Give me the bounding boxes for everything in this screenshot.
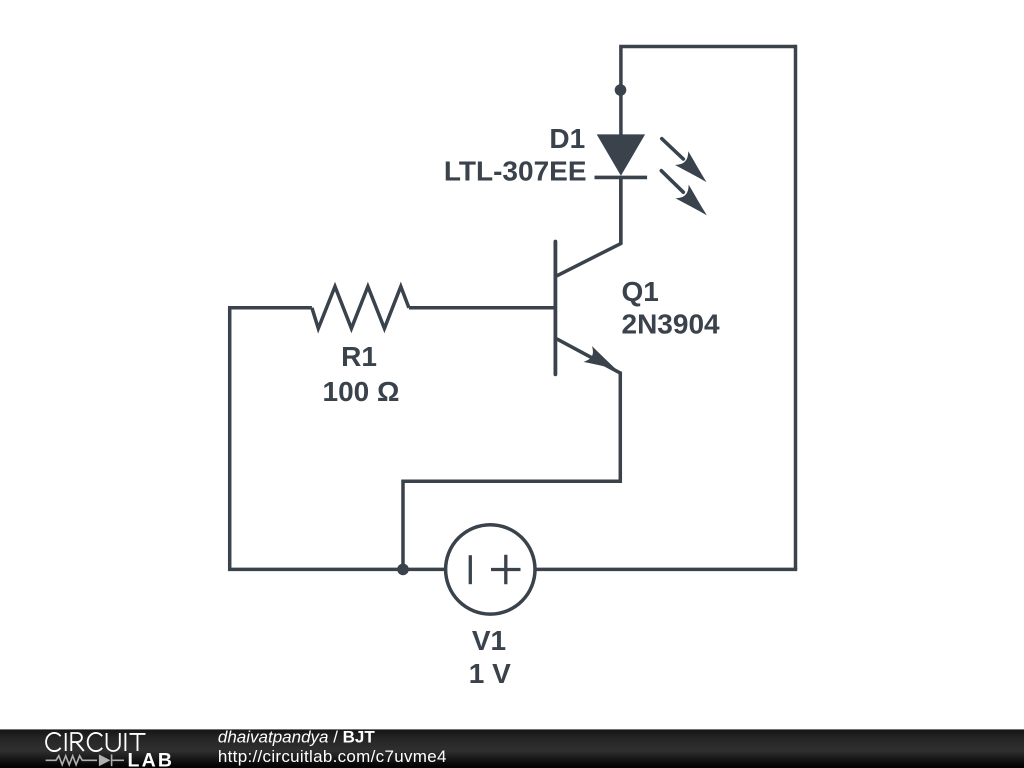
svg-text:Q1: Q1 (622, 276, 659, 307)
emitter arrowhead (583, 346, 620, 377)
node junction dot upper (615, 84, 627, 96)
minus terminal bar (469, 555, 472, 584)
svg-text:D1: D1 (549, 123, 585, 154)
svg-text:dhaivatpandya / BJT: dhaivatpandya / BJT (218, 728, 375, 747)
cathode bar (595, 176, 648, 180)
wire bottom left (230, 308, 446, 570)
base bar (554, 242, 558, 375)
LED D1 (595, 134, 714, 244)
svg-text:LTL-307EE: LTL-307EE (444, 156, 587, 187)
wire R1 left lead (228, 306, 312, 310)
node junction dot lower (397, 564, 409, 576)
svg-text:http://circuitlab.com/c7uvme4: http://circuitlab.com/c7uvme4 (218, 747, 447, 766)
plus sign (491, 555, 521, 584)
wire base (R1 right lead to Q1 base) (409, 306, 554, 310)
light arrow 2 (661, 171, 713, 223)
anode triangle (597, 134, 645, 175)
CircuitLab logo CIRCUIT (46, 733, 145, 751)
svg-text:1 V: 1 V (469, 658, 511, 689)
voltage source V1 (446, 525, 535, 614)
footer bar (0, 729, 1024, 768)
svg-text:R1: R1 (341, 341, 377, 372)
wire top horizontal (621, 47, 796, 135)
resistor R1 (312, 287, 409, 329)
wire right vertical (794, 45, 798, 570)
light arrow 1 (662, 139, 713, 189)
emitter diagonal (557, 339, 621, 373)
collector diagonal (557, 176, 621, 276)
wire bottom right (535, 568, 797, 572)
svg-text:LAB: LAB (128, 750, 175, 768)
CircuitLab logo resistor-diode squiggle (46, 754, 124, 766)
cathode wire (619, 177, 623, 244)
svg-text:V1: V1 (472, 625, 506, 656)
svg-text:2N3904: 2N3904 (622, 308, 721, 339)
CircuitLab logo diode triangle (99, 754, 111, 766)
wire emitter to V1 (403, 372, 620, 570)
transistor Q1 (555, 176, 620, 377)
svg-text:100 Ω: 100 Ω (323, 376, 400, 407)
V1 circle (446, 525, 535, 614)
